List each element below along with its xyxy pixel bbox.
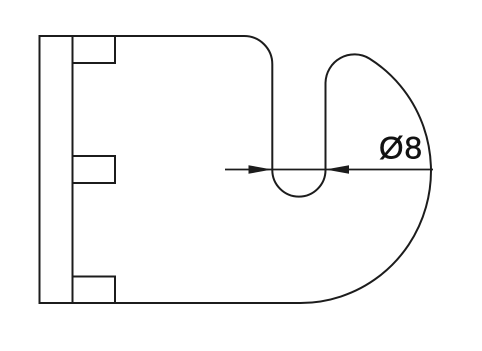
svg-text:Ø8: Ø8: [379, 130, 423, 166]
